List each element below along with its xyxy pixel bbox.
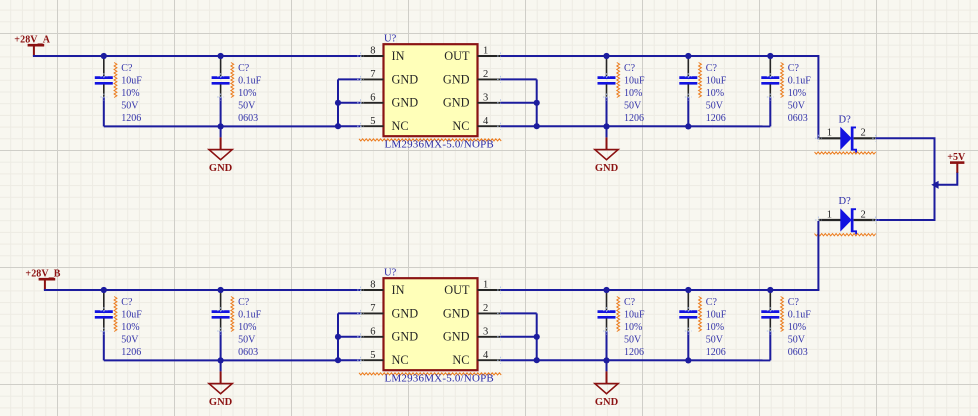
svg-text:C?: C? [624, 63, 636, 74]
svg-text:GND: GND [392, 306, 419, 320]
svg-text:1206: 1206 [121, 347, 141, 358]
orange marker for C-in2-+28V_B [231, 297, 234, 332]
ground input GND +28V_B [209, 360, 233, 408]
svg-text:0603: 0603 [238, 347, 258, 358]
svg-text:U?: U? [384, 34, 397, 45]
junction left tie pin6 [335, 334, 341, 340]
svg-text:C?: C? [788, 63, 800, 74]
U-+28V_A pin 3 (GND) stub [478, 102, 501, 104]
svg-text:GND: GND [595, 163, 619, 174]
capacitor C-out1-+28V_A (10uF 1206) [598, 58, 616, 126]
U-+28V_B pin 6 (GND) stub [361, 336, 384, 338]
junction left tie pin5 [335, 123, 341, 129]
diode D-A pin 1 stub [818, 137, 840, 139]
orange marker for C-out2-+28V_A [699, 63, 702, 98]
ground input GND +28V_A [209, 126, 233, 174]
junction at top of C-out2-+28V_B [685, 287, 691, 293]
svg-text:LM2936MX-5.0/NOPB: LM2936MX-5.0/NOPB [385, 373, 494, 385]
svg-text:C?: C? [624, 297, 636, 308]
capacitor C-in1-+28V_A (10uF 1206) [95, 58, 113, 126]
svg-text:U?: U? [384, 268, 397, 279]
svg-text:C?: C? [121, 63, 133, 74]
svg-text:GND: GND [443, 306, 470, 320]
capacitor C-out3-+28V_A (0.1uF 0603) [761, 58, 779, 126]
svg-text:2: 2 [483, 69, 488, 80]
svg-text:50V: 50V [121, 334, 139, 345]
junction at top of C-out3-+28V_A [767, 53, 773, 59]
junction at top of C-in2-+28V_B [218, 287, 224, 293]
svg-text:NC: NC [452, 353, 469, 367]
wire input gnd rail [104, 125, 338, 127]
svg-text:GND: GND [392, 72, 419, 86]
svg-text:5: 5 [370, 116, 375, 127]
wire input gnd rail [104, 359, 338, 361]
svg-text:10%: 10% [624, 322, 642, 333]
junction at bottom of C-in2-+28V_A [218, 123, 224, 129]
orange marker for C-out3-+28V_A [781, 63, 784, 98]
U-+28V_A pin 8 (IN) stub [361, 55, 384, 57]
IC U-+28V_A body LM2936 [384, 44, 478, 136]
wire vertical join [934, 138, 936, 221]
capacitor C-out1-+28V_B (10uF 1206) [598, 292, 616, 360]
svg-text:GND: GND [392, 96, 419, 110]
svg-text:0603: 0603 [788, 347, 808, 358]
junction at bottom of C-out2-+28V_B [685, 357, 691, 363]
junction right tie pin3 [534, 100, 540, 106]
wire pin3 link [501, 336, 537, 338]
svg-text:C?: C? [238, 63, 250, 74]
U-+28V_A pin 5 (NC) stub [361, 125, 384, 127]
junction at bottom of C-out1-+28V_B [603, 357, 609, 363]
wire pin3 link [501, 102, 537, 104]
junction right tie pin4 [534, 357, 540, 363]
svg-text:0.1uF: 0.1uF [238, 75, 262, 86]
svg-text:8: 8 [370, 46, 375, 57]
junction at top of C-out3-+28V_B [767, 287, 773, 293]
orange marker for C-in1-+28V_B [114, 297, 117, 332]
svg-text:1206: 1206 [706, 347, 726, 358]
wire pin6 link [338, 102, 361, 104]
junction at top of C-in1-+28V_A [101, 53, 107, 59]
diode D-A comment marker [815, 152, 876, 154]
svg-text:10uF: 10uF [624, 309, 645, 320]
svg-text:10%: 10% [706, 88, 724, 99]
svg-text:10%: 10% [238, 88, 256, 99]
U-+28V_A comment marker [359, 139, 501, 141]
svg-text:0.1uF: 0.1uF [238, 309, 262, 320]
svg-text:C?: C? [238, 297, 250, 308]
svg-text:10%: 10% [121, 322, 139, 333]
U-+28V_B pin 4 (NC) stub [478, 359, 501, 361]
svg-text:50V: 50V [238, 334, 256, 345]
capacitor C-in2-+28V_A (0.1uF 0603) [212, 58, 230, 126]
orange marker for C-out3-+28V_B [781, 297, 784, 332]
junction at top of C-out1-+28V_B [603, 287, 609, 293]
svg-text:10%: 10% [706, 322, 724, 333]
power port +28V_B [25, 268, 60, 290]
svg-text:GND: GND [209, 397, 233, 408]
value labels for C-out1-+28V_A [624, 63, 645, 124]
junction at top of C-in1-+28V_B [101, 287, 107, 293]
value labels for C-out3-+28V_A [788, 63, 812, 124]
svg-text:NC: NC [452, 119, 469, 133]
orange marker for C-out2-+28V_B [699, 297, 702, 332]
wire pin2 link [501, 78, 537, 80]
svg-text:+5V: +5V [947, 152, 966, 163]
svg-text:D?: D? [839, 114, 852, 125]
svg-text:0603: 0603 [238, 113, 258, 124]
wire pin4 link / output gnd rail [501, 125, 771, 127]
svg-text:50V: 50V [788, 334, 806, 345]
diode D-A pin 2 stub [854, 137, 876, 139]
wire pin5 link [338, 125, 361, 127]
svg-text:NC: NC [392, 119, 409, 133]
junction at bottom of C-out1-+28V_A [603, 123, 609, 129]
wire gnd tie right vertical [536, 313, 538, 360]
junction arrow at +5V tap [931, 181, 938, 189]
svg-text:5: 5 [370, 350, 375, 361]
svg-text:50V: 50V [121, 100, 139, 111]
junction at top of C-in2-+28V_A [218, 53, 224, 59]
svg-text:0.1uF: 0.1uF [788, 75, 812, 86]
svg-text:10uF: 10uF [624, 75, 645, 86]
svg-text:50V: 50V [788, 100, 806, 111]
wire gnd tie left vertical [337, 313, 339, 361]
svg-text:C?: C? [788, 297, 800, 308]
capacitor C-out2-+28V_A (10uF 1206) [679, 58, 697, 126]
svg-text:6: 6 [370, 93, 375, 104]
svg-text:7: 7 [370, 69, 375, 80]
value labels for C-in2-+28V_A [238, 63, 262, 124]
capacitor C-out2-+28V_B (10uF 1206) [679, 292, 697, 360]
svg-text:10uF: 10uF [706, 309, 727, 320]
svg-text:50V: 50V [706, 334, 724, 345]
wire +28V_A input rail [33, 55, 361, 57]
svg-text:1206: 1206 [121, 113, 141, 124]
junction right tie pin3 [534, 334, 540, 340]
svg-text:0603: 0603 [788, 113, 808, 124]
svg-text:2: 2 [861, 209, 866, 220]
svg-text:8: 8 [370, 280, 375, 291]
node +5V tap wire [937, 172, 957, 185]
junction at top of C-out2-+28V_A [685, 53, 691, 59]
svg-text:1: 1 [483, 280, 488, 291]
value labels for C-out2-+28V_B [706, 297, 727, 358]
svg-text:10uF: 10uF [121, 75, 142, 86]
value labels for C-out2-+28V_A [706, 63, 727, 124]
U-+28V_A pin 1 (OUT) stub [478, 55, 501, 57]
svg-text:1206: 1206 [624, 347, 644, 358]
wire riser B to diode [817, 221, 819, 290]
svg-text:3: 3 [483, 327, 488, 338]
svg-text:1: 1 [483, 46, 488, 57]
svg-text:GND: GND [392, 330, 419, 344]
wire pin7 link [338, 312, 361, 314]
junction left tie pin6 [335, 100, 341, 106]
orange marker for C-out1-+28V_A [617, 63, 620, 98]
wire output rail [501, 55, 820, 57]
svg-text:+28V_B: +28V_B [25, 268, 60, 279]
diode D-A body (schottky) [840, 127, 851, 150]
svg-text:1: 1 [827, 209, 832, 220]
svg-text:10uF: 10uF [121, 309, 142, 320]
svg-text:C?: C? [121, 297, 133, 308]
diode D-B pin 2 stub [854, 219, 876, 221]
diode D-B body (schottky) [840, 208, 851, 231]
orange marker for C-out1-+28V_B [617, 297, 620, 332]
svg-text:GND: GND [443, 96, 470, 110]
capacitor C-out3-+28V_B (0.1uF 0603) [761, 292, 779, 360]
svg-text:50V: 50V [706, 100, 724, 111]
junction at top of C-out1-+28V_A [603, 53, 609, 59]
svg-text:C?: C? [706, 63, 718, 74]
svg-text:LM2936MX-5.0/NOPB: LM2936MX-5.0/NOPB [385, 139, 494, 151]
capacitor C-in2-+28V_B (0.1uF 0603) [212, 292, 230, 360]
svg-text:+28V_A: +28V_A [14, 34, 50, 45]
wire diode B output [876, 219, 936, 221]
wire riser A to diode [817, 57, 819, 139]
ground output GND +28V_A [595, 126, 619, 174]
wire gnd tie left vertical [337, 79, 339, 127]
U-+28V_B pin 7 (GND) stub [361, 312, 384, 314]
svg-text:10%: 10% [788, 322, 806, 333]
svg-text:3: 3 [483, 93, 488, 104]
svg-text:D?: D? [839, 196, 852, 207]
svg-text:10%: 10% [788, 88, 806, 99]
svg-text:C?: C? [706, 297, 718, 308]
svg-text:1206: 1206 [706, 113, 726, 124]
U-+28V_A pin 7 (GND) stub [361, 78, 384, 80]
svg-text:50V: 50V [238, 100, 256, 111]
ground output GND +28V_B [595, 360, 619, 408]
svg-text:OUT: OUT [444, 283, 470, 297]
capacitor C-in1-+28V_B (10uF 1206) [95, 292, 113, 360]
svg-text:NC: NC [392, 353, 409, 367]
wire pin7 link [338, 78, 361, 80]
svg-text:6: 6 [370, 327, 375, 338]
U-+28V_B pin 5 (NC) stub [361, 359, 384, 361]
U-+28V_B pin 3 (GND) stub [478, 336, 501, 338]
svg-text:4: 4 [483, 116, 489, 127]
svg-text:50V: 50V [624, 334, 642, 345]
svg-text:IN: IN [392, 49, 405, 63]
junction at bottom of C-out2-+28V_A [685, 123, 691, 129]
svg-text:GND: GND [595, 397, 619, 408]
svg-text:IN: IN [392, 283, 405, 297]
wire output rail [501, 289, 820, 291]
svg-text:4: 4 [483, 350, 489, 361]
svg-text:7: 7 [370, 303, 375, 314]
orange marker for C-in2-+28V_A [231, 63, 234, 98]
svg-text:GND: GND [443, 72, 470, 86]
wire pin5 link [338, 359, 361, 361]
value labels for C-in2-+28V_B [238, 297, 262, 358]
svg-text:1206: 1206 [624, 113, 644, 124]
junction at bottom of C-in2-+28V_B [218, 357, 224, 363]
svg-text:10%: 10% [624, 88, 642, 99]
svg-text:GND: GND [443, 330, 470, 344]
svg-text:2: 2 [861, 128, 866, 139]
wire pin6 link [338, 336, 361, 338]
svg-text:OUT: OUT [444, 49, 470, 63]
svg-text:10%: 10% [121, 88, 139, 99]
svg-text:2: 2 [483, 303, 488, 314]
wire diode A output [876, 137, 936, 139]
U-+28V_B pin 2 (GND) stub [478, 312, 501, 314]
U-+28V_A pin 2 (GND) stub [478, 78, 501, 80]
U-+28V_A pin 4 (NC) stub [478, 125, 501, 127]
value labels for C-in1-+28V_A [121, 63, 142, 124]
diode D-B pin 1 stub [818, 219, 840, 221]
svg-text:10%: 10% [238, 322, 256, 333]
junction left tie pin5 [335, 357, 341, 363]
junction right tie pin4 [534, 123, 540, 129]
U-+28V_A pin 6 (GND) stub [361, 102, 384, 104]
diode D-B comment marker [815, 234, 876, 236]
power port +5V [947, 152, 966, 173]
svg-text:GND: GND [209, 163, 233, 174]
wire pin4 link / output gnd rail [501, 359, 771, 361]
svg-text:0.1uF: 0.1uF [788, 309, 812, 320]
wire +28V_B input rail [44, 289, 361, 291]
svg-text:1: 1 [827, 128, 832, 139]
value labels for C-in1-+28V_B [121, 297, 142, 358]
power port +28V_A [14, 34, 50, 56]
IC U-+28V_B body LM2936 [384, 278, 478, 370]
value labels for C-out3-+28V_B [788, 297, 812, 358]
value labels for C-out1-+28V_B [624, 297, 645, 358]
U-+28V_B comment marker [359, 373, 501, 375]
U-+28V_B pin 1 (OUT) stub [478, 289, 501, 291]
orange marker for C-in1-+28V_A [114, 63, 117, 98]
svg-text:50V: 50V [624, 100, 642, 111]
U-+28V_B pin 8 (IN) stub [361, 289, 384, 291]
wire gnd tie right vertical [536, 79, 538, 126]
svg-text:10uF: 10uF [706, 75, 727, 86]
wire pin2 link [501, 312, 537, 314]
